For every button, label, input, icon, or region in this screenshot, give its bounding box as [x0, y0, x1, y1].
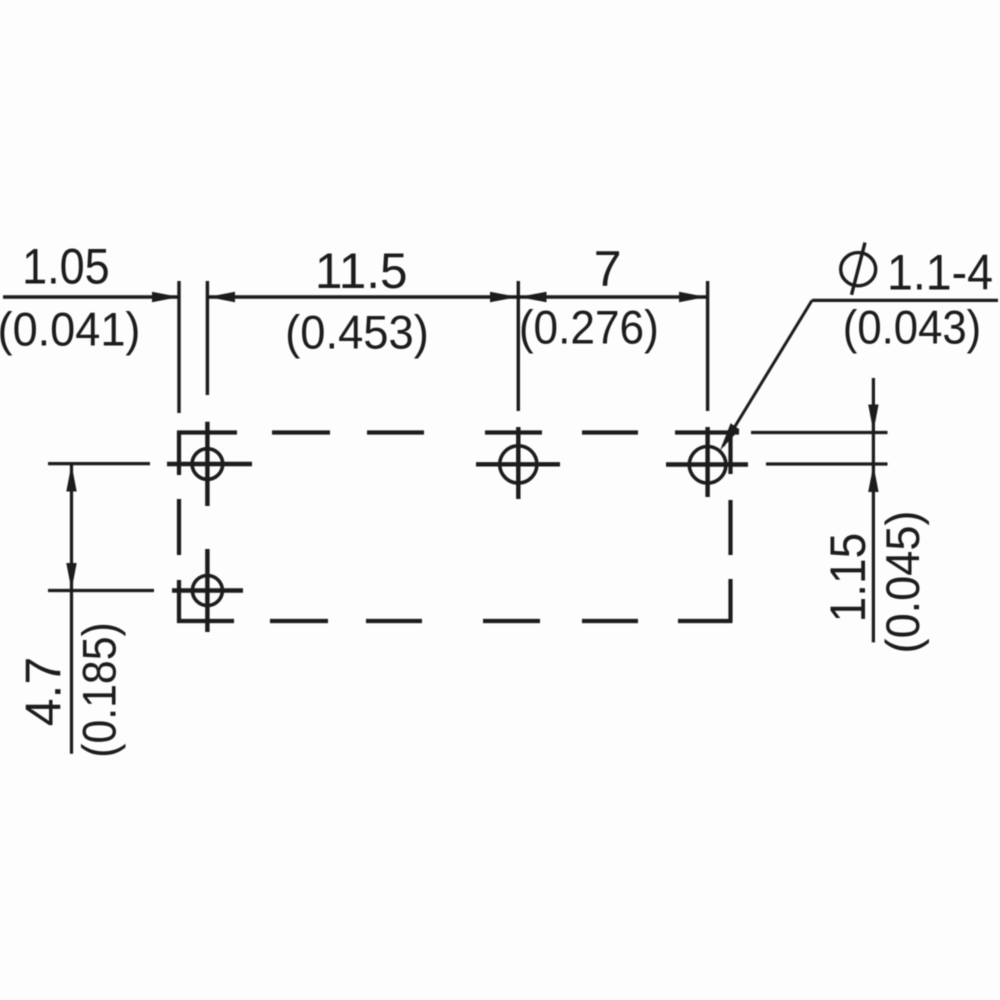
svg-text:1.05: 1.05 — [22, 239, 110, 295]
svg-text:(0.453): (0.453) — [285, 306, 429, 359]
svg-text:(0.185): (0.185) — [73, 622, 126, 757]
svg-text:4.7: 4.7 — [16, 657, 72, 727]
svg-text:(0.043): (0.043) — [843, 301, 981, 354]
svg-text:11.5: 11.5 — [315, 243, 408, 299]
svg-text:(0.045): (0.045) — [876, 511, 929, 654]
svg-text:7: 7 — [594, 241, 622, 297]
svg-text:(0.276): (0.276) — [519, 301, 659, 354]
svg-text:(0.041): (0.041) — [0, 303, 140, 356]
svg-text:1.1-4: 1.1-4 — [887, 245, 993, 301]
svg-text:1.15: 1.15 — [821, 533, 876, 623]
